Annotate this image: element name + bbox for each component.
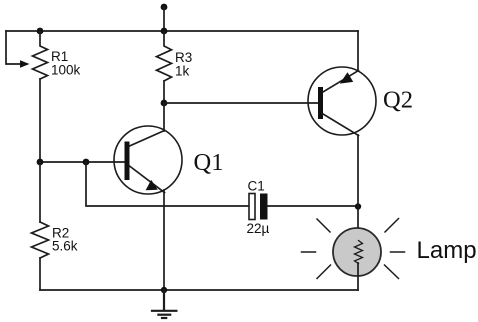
- node supply terminal dot: [161, 4, 168, 11]
- svg-text:Q2: Q2: [383, 87, 413, 114]
- svg-text:22µ: 22µ: [247, 221, 270, 236]
- wire R3 lower lead: [163, 81, 165, 103]
- wire R1 to base node: [39, 79, 41, 162]
- wire R2 branch: [39, 162, 41, 222]
- node C1/lamp junction: [355, 203, 361, 209]
- wire supply stub: [163, 7, 165, 31]
- lamp rays: [302, 219, 405, 279]
- svg-text:C1: C1: [248, 179, 265, 194]
- wire Q2 base: [164, 102, 319, 104]
- transistor Q2: [308, 67, 376, 136]
- wire R1 wiper arm: [6, 31, 21, 64]
- node ground junction: [161, 287, 167, 293]
- wire Q1 emitter to bottom rail: [163, 190, 165, 290]
- svg-text:Lamp: Lamp: [417, 237, 477, 264]
- wire junction to Q1 collector: [163, 103, 165, 131]
- node R1 top junction: [37, 28, 44, 35]
- node R3 top junction: [161, 28, 168, 35]
- wire C1 to lamp node: [268, 205, 359, 207]
- wire R2 to bottom rail: [39, 258, 41, 290]
- R1 wiper arrowhead: [20, 60, 30, 68]
- svg-text:Q1: Q1: [194, 149, 224, 176]
- wire Q1 base: [40, 161, 125, 163]
- resistor R2 5.6k: [32, 222, 49, 258]
- wire top rail: [6, 30, 358, 32]
- node R3/Q1/Q2 junction: [161, 100, 168, 107]
- ground: [152, 290, 176, 318]
- node C1 branch junction: [83, 159, 90, 166]
- wire C1 branch: [86, 162, 249, 206]
- transistor Q1: [114, 126, 182, 194]
- lamp: [333, 228, 381, 276]
- wire top rail to Q2 emitter: [357, 31, 359, 71]
- svg-text:100k: 100k: [51, 63, 81, 78]
- node Q1 base junction: [37, 159, 44, 166]
- capacitor C1: [249, 194, 268, 220]
- svg-text:5.6k: 5.6k: [52, 239, 78, 254]
- wire lamp top lead: [357, 206, 359, 241]
- svg-text:1k: 1k: [175, 64, 190, 79]
- wire lamp bottom lead: [357, 263, 359, 290]
- resistor R1 100k: [33, 31, 48, 79]
- wire bottom rail: [40, 289, 358, 291]
- wire Q2 collector down: [357, 135, 359, 206]
- resistor R3 1k: [157, 31, 172, 81]
